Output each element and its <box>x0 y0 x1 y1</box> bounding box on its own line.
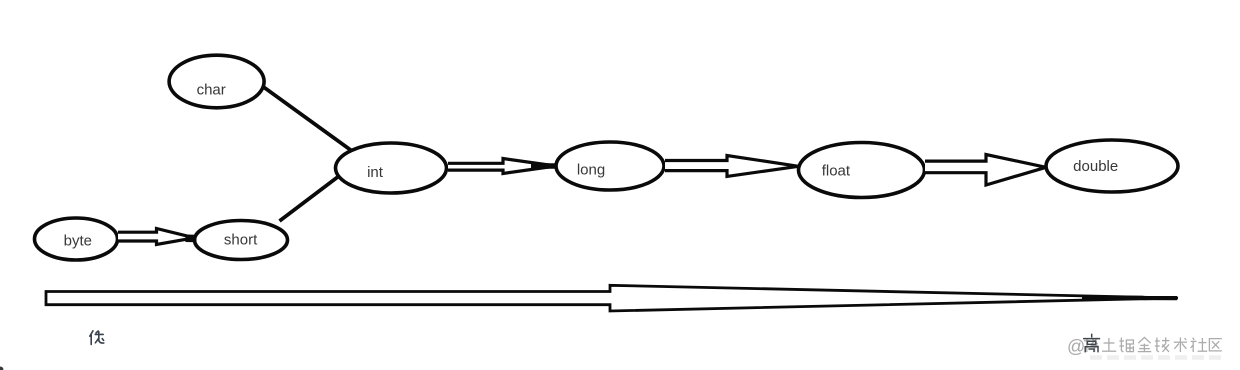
wire char-int <box>258 83 352 151</box>
svg-text:byte: byte <box>64 233 92 250</box>
arrow low-high axis <box>46 285 1178 311</box>
svg-text:@: @ <box>1067 337 1085 357</box>
watermark she <box>1191 338 1208 352</box>
arrow long-float <box>665 156 799 177</box>
node int <box>336 143 447 193</box>
arrow int-long <box>448 159 556 174</box>
arrow byte-short solid tip <box>186 235 197 243</box>
node short <box>195 221 288 260</box>
svg-text:float: float <box>822 163 851 180</box>
node char <box>169 55 264 108</box>
node long <box>556 142 664 190</box>
wire short-int <box>280 175 342 222</box>
arrow low-high solid tip <box>1082 296 1177 301</box>
svg-text:long: long <box>577 162 605 179</box>
arrow int-long solid tip <box>531 163 557 169</box>
watermark tu <box>1102 338 1116 351</box>
svg-text:double: double <box>1073 158 1118 175</box>
svg-text:short: short <box>224 232 258 249</box>
node double <box>1046 140 1178 192</box>
arrow byte-short <box>118 229 195 245</box>
watermark shu <box>1174 337 1187 352</box>
corner smudge <box>0 367 3 370</box>
arrow float-double <box>925 155 1046 186</box>
label low (CJK di) <box>90 331 104 345</box>
node float <box>799 143 925 198</box>
watermark jue <box>1119 338 1133 353</box>
watermark qu <box>1209 339 1221 351</box>
node byte <box>35 218 118 260</box>
watermark xi (covered by gao) <box>1084 338 1098 352</box>
svg-text:char: char <box>197 82 226 99</box>
watermark ghost second line <box>1090 355 1224 360</box>
svg-text:int: int <box>367 164 384 181</box>
label high (CJK gao) <box>1084 334 1100 351</box>
watermark ji <box>1155 337 1170 352</box>
watermark jin <box>1138 337 1151 351</box>
